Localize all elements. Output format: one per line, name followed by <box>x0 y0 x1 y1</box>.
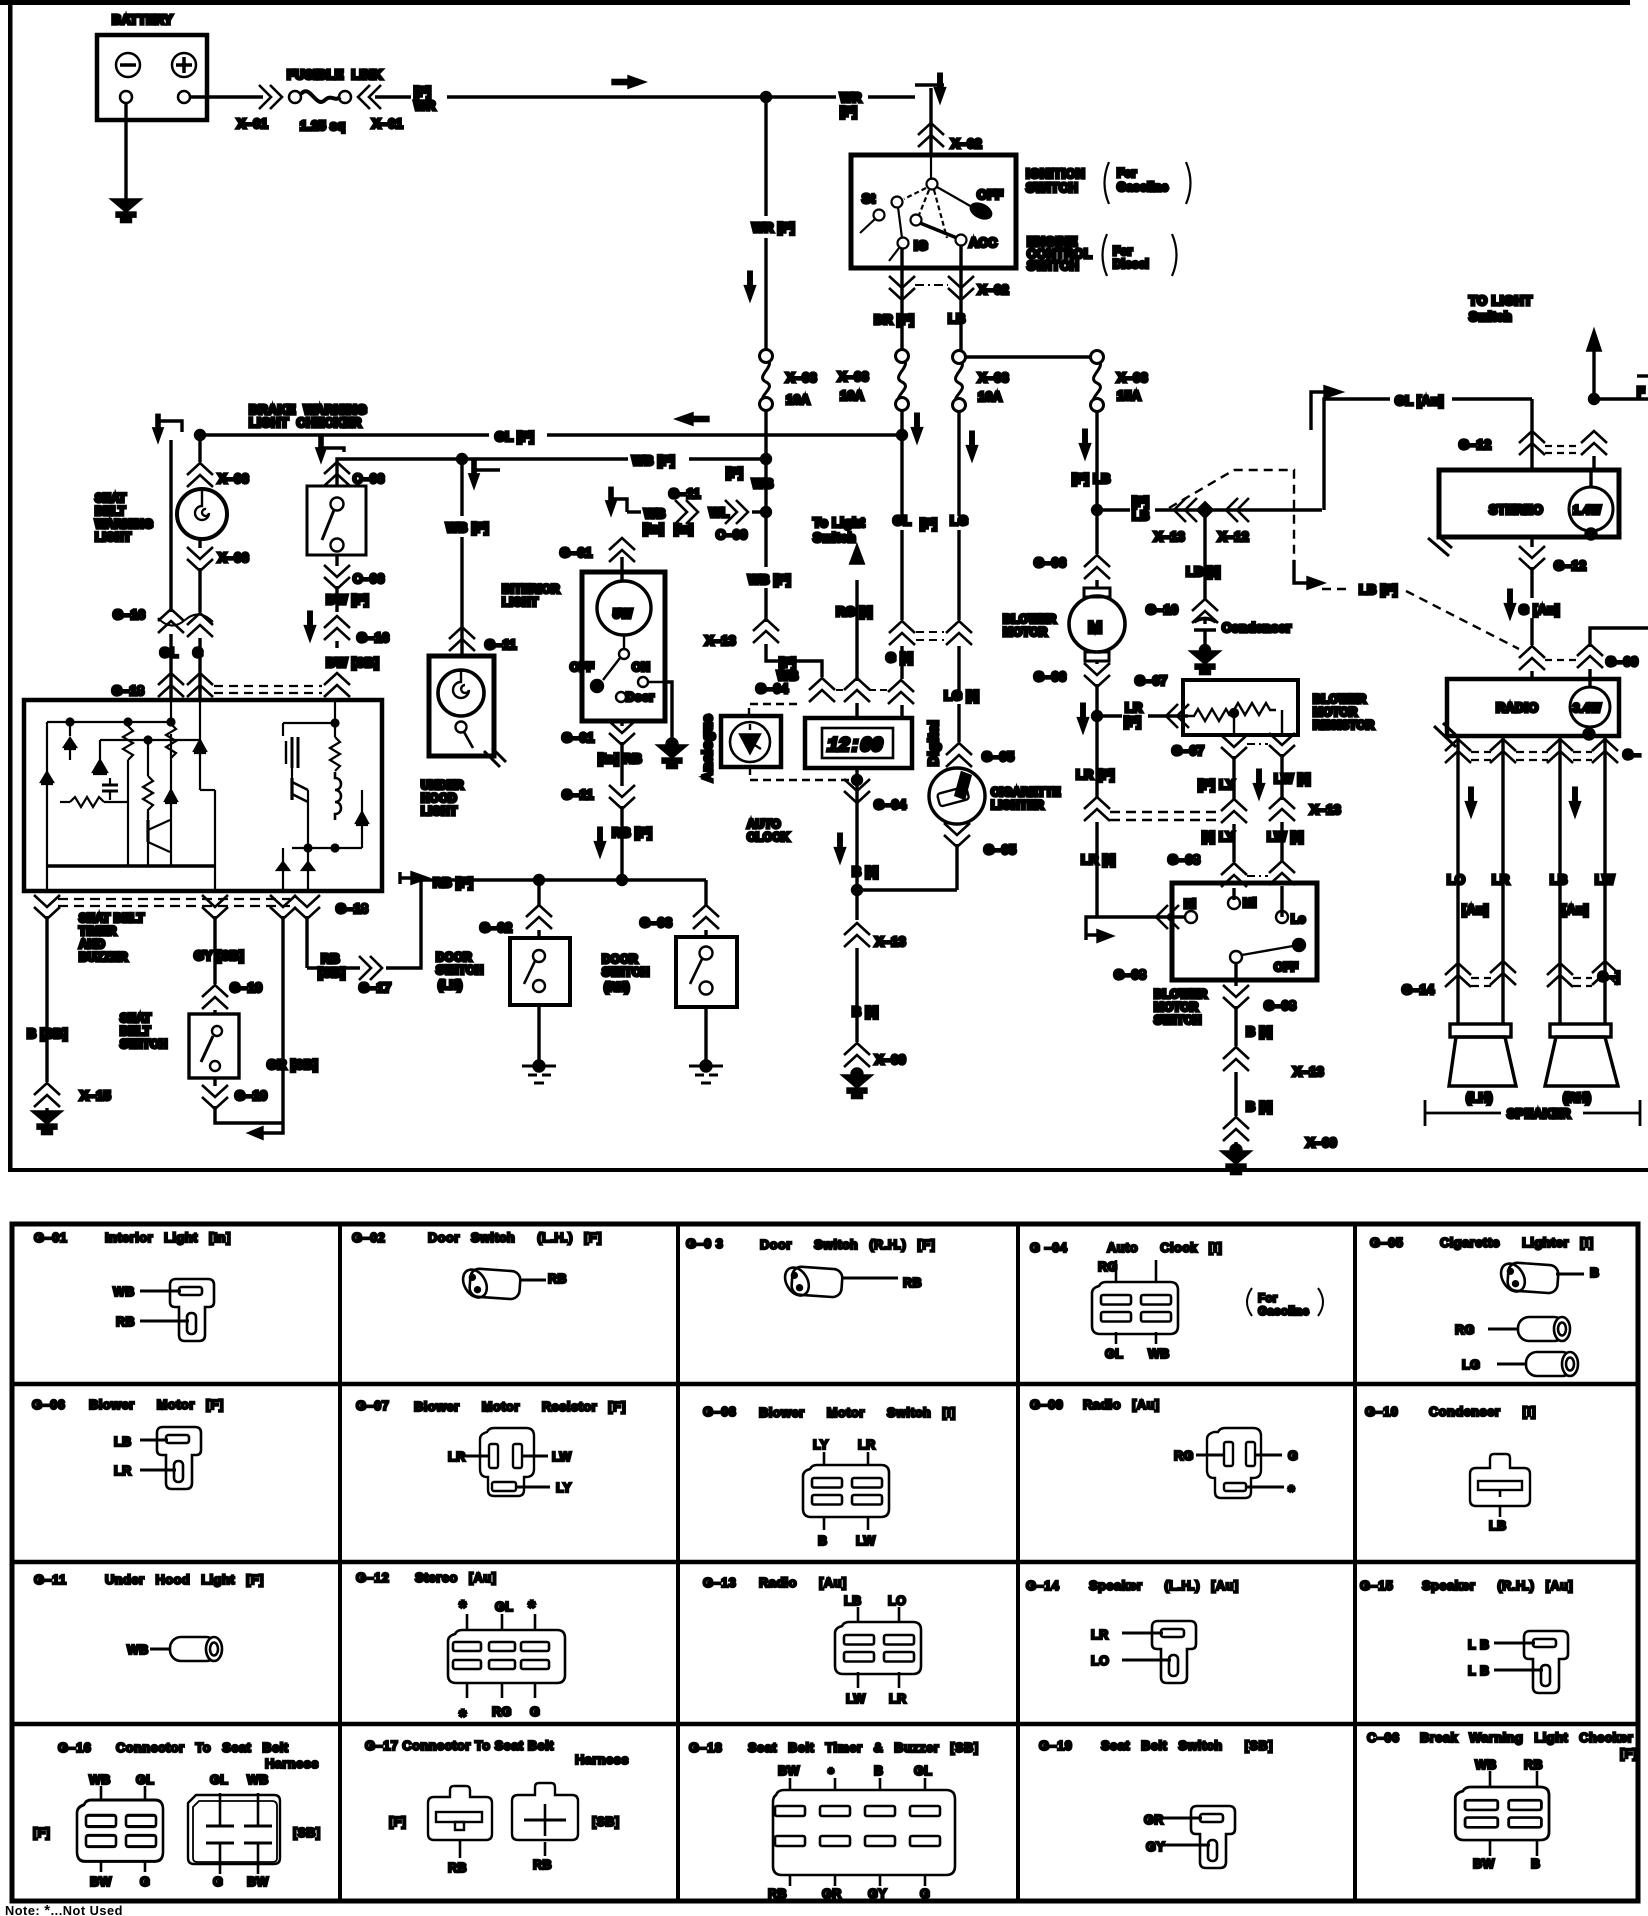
svg-text:LW: LW <box>846 1692 866 1706</box>
svg-text:G–06: G–06 <box>1034 670 1066 684</box>
connector X-13 <box>753 619 779 643</box>
svg-text:SWITCH: SWITCH <box>1027 259 1079 273</box>
svg-text:X–02: X–02 <box>951 137 982 151</box>
svg-text:BLOWER: BLOWER <box>1003 613 1057 626</box>
fusible link <box>237 68 403 133</box>
svg-text:LG: LG <box>1462 1358 1480 1372</box>
svg-text:[In] RB: [In] RB <box>598 752 642 766</box>
svg-text:B: B <box>874 1764 884 1778</box>
wire WR [F] main feed <box>375 95 411 98</box>
svg-text:G–09: G–09 <box>1030 1397 1063 1412</box>
lamp 1.4W <box>1569 487 1613 531</box>
svg-text:Speaker (R.H.) [Au]: Speaker (R.H.) [Au] <box>1422 1578 1573 1593</box>
svg-text:X–13: X–13 <box>705 634 736 648</box>
svg-text:G–18: G–18 <box>689 1740 722 1755</box>
svg-text:GL: GL <box>210 1773 228 1787</box>
svg-text:RB: RB <box>768 1887 787 1901</box>
connector X-13 <box>1174 498 1197 522</box>
svg-text:12:00: 12:00 <box>827 735 883 758</box>
battery negative wire <box>124 103 127 200</box>
svg-text:G–07: G–07 <box>1135 674 1167 688</box>
svg-text:CIGARETTE: CIGARETTE <box>991 786 1061 799</box>
wire B [I] from clock <box>855 703 858 718</box>
connector X-06 top <box>187 463 213 487</box>
svg-text:G–18: G–18 <box>336 902 368 916</box>
wire WB [F] down to under hood light <box>460 459 463 516</box>
svg-text:LR: LR <box>448 1450 466 1464</box>
svg-text:G–13: G–13 <box>703 1575 736 1590</box>
svg-text:Diesel: Diesel <box>1113 258 1149 271</box>
svg-text:G: G <box>1288 1449 1298 1463</box>
exit arrow left <box>262 1123 283 1133</box>
svg-text:LR: LR <box>1091 1628 1109 1642</box>
corner continuation WB underhood <box>474 468 500 471</box>
svg-text:WR [F]: WR [F] <box>752 221 795 235</box>
arrow right on WR wire <box>613 77 643 87</box>
svg-text:G–19: G–19 <box>230 981 262 995</box>
svg-text:GL: GL <box>1105 1347 1123 1361</box>
svg-text:G–]: G–] <box>1598 970 1620 984</box>
svg-text:1.4W: 1.4W <box>1573 504 1601 517</box>
svg-text:BW: BW <box>1473 1857 1495 1871</box>
svg-text:Mi: Mi <box>1243 897 1256 910</box>
svg-text:IGNITION: IGNITION <box>1026 167 1085 181</box>
svg-text:LR: LR <box>1492 873 1510 887</box>
svg-text:BW [SB]: BW [SB] <box>326 656 379 670</box>
svg-text:WB [F]: WB [F] <box>632 454 675 468</box>
svg-text:*: * <box>459 1707 467 1728</box>
svg-text:LY: LY <box>813 1438 829 1452</box>
svg-text:G–09: G–09 <box>1606 655 1638 669</box>
svg-text:X–13: X–13 <box>1293 1065 1324 1079</box>
lamp 5W <box>597 581 651 635</box>
blower motor <box>1069 588 1125 661</box>
svg-text:GR: GR <box>1144 1813 1164 1827</box>
svg-text:G: G <box>920 1887 930 1901</box>
wire G-09 corner to edge <box>1590 628 1648 647</box>
svg-text:[I] LY: [I] LY <box>1202 830 1235 844</box>
svg-text:MOTOR: MOTOR <box>1154 1001 1199 1014</box>
svg-text:G–17: G–17 <box>359 981 391 995</box>
svg-text:TO LIGHT: TO LIGHT <box>1469 293 1532 308</box>
svg-text:[F] LY: [F] LY <box>1198 778 1235 792</box>
svg-text:G–12: G–12 <box>1459 438 1491 452</box>
svg-text:[SB]: [SB] <box>592 1815 619 1829</box>
wire RB [SB] <box>305 916 308 968</box>
arrow down right of fuse2 <box>913 414 922 441</box>
svg-text:*: * <box>459 1598 467 1619</box>
interior light box <box>582 572 665 721</box>
svg-text:*: * <box>1288 1482 1295 1501</box>
connector X-06 bottom <box>198 539 201 548</box>
connector X-09 <box>844 1043 870 1067</box>
svg-text:GL: GL <box>893 514 911 528</box>
svg-text:G–16: G–16 <box>357 631 389 645</box>
connector G-16 (BW) <box>324 616 350 640</box>
connector G-08 row <box>1221 863 1247 887</box>
svg-text:LB: LB <box>1550 873 1568 887</box>
svg-text:WR: WR <box>414 99 436 113</box>
brake warning light checker switch <box>307 435 366 555</box>
svg-text:Condenser [I]: Condenser [I] <box>1429 1404 1536 1419</box>
svg-text:G–04: G–04 <box>756 682 788 696</box>
svg-text:LG: LG <box>950 514 968 528</box>
connector C-06 top <box>324 462 350 486</box>
node WB junction (underhood branch) <box>458 455 467 464</box>
svg-text:[F]: [F] <box>389 1815 406 1829</box>
wire G [I] (clock feed) <box>900 409 903 516</box>
svg-text:Switch: Switch <box>1469 310 1512 324</box>
svg-text:SEAT BELT: SEAT BELT <box>79 912 144 925</box>
svg-text:WB: WB <box>247 1773 269 1787</box>
svg-text:LW [I]: LW [I] <box>1274 772 1311 786</box>
node WB/C-09 junction <box>762 508 771 517</box>
node WR junction <box>762 93 771 102</box>
connector G-05 top <box>946 743 972 767</box>
svg-text:LO: LO <box>1091 1654 1109 1668</box>
fuse X-03 10A (WR) <box>760 350 773 411</box>
svg-text:G–10: G–10 <box>1365 1404 1398 1419</box>
svg-text:AND: AND <box>79 938 105 951</box>
svg-text:B [I]: B [I] <box>1246 1100 1272 1114</box>
wire IG out of box <box>900 248 903 300</box>
svg-text:SWITCH: SWITCH <box>1154 1014 1202 1027</box>
wire GL into stereo <box>1530 399 1533 470</box>
svg-text:X–03: X–03 <box>1117 371 1148 385</box>
svg-text:RG: RG <box>1174 1449 1194 1463</box>
svg-text:LR: LR <box>889 1692 907 1706</box>
svg-text:X–03: X–03 <box>978 371 1009 385</box>
wire WB [F] from checker <box>337 459 628 486</box>
connector G-18 (BW) <box>324 673 350 697</box>
svg-text:Note: *...Not Used: Note: *...Not Used <box>5 1902 123 1916</box>
fuse X-03 10A (BR) <box>896 350 909 411</box>
svg-text:[F]: [F] <box>920 517 937 531</box>
wire WB down from junction <box>764 459 767 512</box>
svg-text:For: For <box>1117 167 1137 180</box>
wire LB [I] condenser <box>1203 510 1206 600</box>
svg-text:X–06: X–06 <box>218 472 249 486</box>
connector G-19 top <box>202 985 228 1009</box>
wire B [SB] <box>45 916 48 1082</box>
svg-text:RB: RB <box>548 1272 567 1286</box>
svg-text:X–02: X–02 <box>978 283 1009 297</box>
connector X-09 <box>1223 1117 1249 1141</box>
svg-text:10A: 10A <box>786 393 810 407</box>
svg-text:Lo: Lo <box>1291 913 1306 926</box>
svg-text:G–05: G–05 <box>1370 1235 1403 1250</box>
svg-text:For: For <box>1113 245 1133 258</box>
svg-text:Radio [Au]: Radio [Au] <box>759 1575 847 1590</box>
svg-text:BATTERY: BATTERY <box>112 13 173 27</box>
stereo case slashes <box>1428 538 1449 556</box>
svg-text:B [I]: B [I] <box>852 865 878 879</box>
svg-text:G–01: G–01 <box>562 731 594 745</box>
wire GY [SB] <box>213 916 216 984</box>
seat belt warning light <box>95 489 227 544</box>
lamp 3.4W <box>1570 687 1610 727</box>
svg-text:WB: WB <box>113 1285 135 1299</box>
connector X-12 <box>1226 498 1249 522</box>
battery <box>97 13 207 120</box>
wire to light switch arrow <box>1592 348 1595 399</box>
svg-text:G: G <box>140 1875 150 1889</box>
svg-text:G–0 3: G–0 3 <box>686 1236 723 1251</box>
connector G-18 bottom row <box>34 895 60 919</box>
svg-text:RB: RB <box>116 1315 135 1329</box>
svg-text:BELT: BELT <box>95 505 126 518</box>
svg-text:MOTOR: MOTOR <box>1003 626 1048 639</box>
svg-text:GL: GL <box>136 1773 154 1787</box>
svg-text:[F]: [F] <box>1620 1747 1637 1761</box>
svg-text:L B: L B <box>1468 1664 1490 1678</box>
timer box internals <box>41 700 368 891</box>
wire BW into box <box>335 555 338 566</box>
svg-text:G–11: G–11 <box>562 788 594 802</box>
battery ground <box>113 200 139 222</box>
svg-text:G–16: G–16 <box>113 608 145 622</box>
svg-text:GR [SB]: GR [SB] <box>267 1058 318 1072</box>
resistor elements <box>1188 703 1282 735</box>
SPEAKER bracket <box>1425 1100 1640 1126</box>
svg-text:LIGHT CHECKER: LIGHT CHECKER <box>249 416 362 430</box>
svg-text:(LH): (LH) <box>438 979 462 992</box>
arrow down WR wire <box>746 272 755 299</box>
ground LH door switch <box>534 1061 544 1071</box>
svg-text:Digital: Digital <box>925 720 941 766</box>
node X-12 junction <box>1198 503 1212 517</box>
svg-text:G–14: G–14 <box>1026 1578 1060 1593</box>
svg-text:Harness: Harness <box>575 1752 629 1767</box>
connector G-17 <box>359 956 382 980</box>
connector G-09 row <box>1519 646 1545 670</box>
svg-text:Door Switch (L.H.) [F]: Door Switch (L.H.) [F] <box>428 1230 602 1245</box>
svg-text:Connector To Seat Belt: Connector To Seat Belt <box>116 1740 289 1755</box>
connector X-13 row <box>1084 797 1110 821</box>
svg-text:G–07: G–07 <box>1172 744 1204 758</box>
svg-text:X–06: X–06 <box>218 551 249 565</box>
svg-text:X–03: X–03 <box>838 370 869 384</box>
svg-text:G–16: G–16 <box>58 1740 91 1755</box>
node light switch junction <box>1590 395 1599 404</box>
wire LR [F] to resistor <box>1097 714 1122 717</box>
svg-text:SPEAKER: SPEAKER <box>1507 1107 1571 1121</box>
svg-text:FUSIBLE LINK: FUSIBLE LINK <box>287 68 382 82</box>
wire into lamp <box>620 557 623 582</box>
connector X-13 <box>844 923 870 947</box>
svg-text:BRAKE WARNING: BRAKE WARNING <box>249 403 367 417</box>
svg-text:SWITCH: SWITCH <box>436 964 484 977</box>
svg-text:G–01: G–01 <box>34 1230 67 1245</box>
connector G-13 row <box>1445 739 1471 763</box>
connector X-13 <box>1223 1047 1249 1071</box>
svg-text:LR: LR <box>1125 701 1143 715</box>
wire fuse1 down to WB junction <box>764 411 767 459</box>
svg-text:X–09: X–09 <box>1306 1136 1337 1150</box>
svg-text:GL [F]: GL [F] <box>495 430 534 444</box>
svg-text:C–06: C–06 <box>353 572 385 586</box>
wire LB down to blower motor <box>1095 510 1098 554</box>
svg-text:WB: WB <box>777 669 799 683</box>
corner continuation GL <box>158 421 182 432</box>
svg-text:St: St <box>862 192 876 206</box>
wire LB [F] horizontal to X-12 <box>1097 508 1130 511</box>
svg-text:WB: WB <box>644 507 666 521</box>
svg-text:[F]: [F] <box>726 466 743 480</box>
svg-text:LR [I]: LR [I] <box>1081 853 1116 867</box>
radio case slashes <box>1434 726 1456 747</box>
ground condenser <box>1201 646 1210 655</box>
svg-text:10A: 10A <box>840 389 864 403</box>
svg-text:G: G <box>193 646 203 660</box>
svg-text:RB: RB <box>1524 1758 1543 1772</box>
svg-text:G–01: G–01 <box>560 546 592 560</box>
frame left border <box>8 0 13 1172</box>
svg-text:Hi: Hi <box>1184 898 1196 911</box>
fuse X-03 10A (LB) <box>953 351 966 412</box>
seat belt timer and buzzer box <box>24 700 382 891</box>
svg-text:C–06: C–06 <box>1367 1730 1400 1745</box>
svg-text:[In]: [In] <box>643 522 664 536</box>
svg-text:RB: RB <box>321 952 340 966</box>
wire GL [F] horizontal <box>200 433 489 436</box>
svg-text:SEAT: SEAT <box>120 1012 151 1025</box>
svg-text:LB: LB <box>1489 1519 1507 1533</box>
svg-text:RG [I]: RG [I] <box>836 605 873 619</box>
svg-text:GY [SB]: GY [SB] <box>194 949 244 963</box>
wire BR down to fuse <box>900 300 903 350</box>
svg-text:WB [F]: WB [F] <box>446 521 489 535</box>
svg-text:SWITCH: SWITCH <box>120 1038 168 1051</box>
svg-text:Switch: Switch <box>813 531 856 545</box>
dashed LB [F] to stereo <box>1169 470 1294 560</box>
svg-text:Door: Door <box>626 691 654 704</box>
connector G-14 row <box>1445 963 1471 987</box>
svg-text:LIGHT: LIGHT <box>421 805 457 818</box>
svg-text:WR: WR <box>840 91 862 105</box>
wire Hi lead <box>1086 917 1185 940</box>
svg-text:B: B <box>1590 1266 1600 1280</box>
wire WR [F] down from junction <box>764 97 767 216</box>
svg-text:[F]: [F] <box>1132 495 1149 509</box>
svg-text:B: B <box>1531 1857 1541 1871</box>
node GL-fuse junction <box>898 431 907 440</box>
connector G-06 bottom <box>1095 661 1098 664</box>
svg-text:LB [F]: LB [F] <box>1359 583 1398 597</box>
svg-text:[SB]: [SB] <box>293 1826 320 1840</box>
stereo box <box>1439 470 1619 537</box>
wire GL [Au] up corner <box>1324 399 1390 510</box>
svg-text:BUZZER: BUZZER <box>79 951 128 964</box>
svg-text:G–11: G–11 <box>485 638 517 652</box>
wire RG [I] to light switch <box>855 580 858 681</box>
wire LB from 15A fuse <box>1095 410 1098 510</box>
svg-text:1.25 sq: 1.25 sq <box>300 119 346 133</box>
svg-text:WB: WB <box>1148 1347 1170 1361</box>
connector G-19 bottom <box>213 1078 216 1086</box>
wire RB below interior light <box>620 721 623 726</box>
svg-text:MOTOR: MOTOR <box>1313 706 1358 719</box>
svg-text:G–08: G–08 <box>703 1404 736 1419</box>
svg-text:Condenser: Condenser <box>1222 621 1291 635</box>
svg-text:WB: WB <box>1475 1758 1497 1772</box>
svg-text:WB: WB <box>127 1643 149 1657</box>
svg-text:3.4W: 3.4W <box>1573 702 1601 715</box>
cigarette lighter <box>929 768 985 824</box>
svg-text:(RH): (RH) <box>604 981 630 994</box>
svg-text:Analogue: Analogue <box>699 714 715 782</box>
svg-text:OFF: OFF <box>977 188 1003 202</box>
wire GR [SB] <box>281 916 284 1123</box>
dashed analogue connections <box>749 704 799 716</box>
fuse X-03 15A <box>1091 351 1104 412</box>
svg-text:SWITCH: SWITCH <box>602 966 650 979</box>
svg-text:SEAT: SEAT <box>95 492 126 505</box>
svg-text:G–08: G–08 <box>1114 968 1146 982</box>
svg-text:Break Warning Light Checker: Break Warning Light Checker <box>1420 1730 1633 1745</box>
svg-text:OFF: OFF <box>570 661 594 674</box>
svg-text:[F]: [F] <box>414 85 431 99</box>
svg-text:WARNING: WARNING <box>95 518 153 531</box>
connector G-06 top <box>1084 555 1110 579</box>
svg-text:SWITCH: SWITCH <box>1026 181 1078 195</box>
arrow left on GL wire <box>678 414 708 424</box>
svg-text:G–06: G–06 <box>1034 556 1066 570</box>
connector C-06 bottom <box>324 565 350 589</box>
svg-text:LB: LB <box>1132 509 1150 523</box>
svg-text:G–12: G–12 <box>1554 559 1586 573</box>
svg-text:RESISTOR: RESISTOR <box>1313 719 1375 732</box>
wire battery plus to fusible link <box>190 95 263 98</box>
svg-text:Auto Clock [I]: Auto Clock [I] <box>1107 1240 1222 1255</box>
svg-text:*: * <box>528 1598 536 1619</box>
svg-text:GL [Au]: GL [Au] <box>1395 394 1444 408</box>
svg-text:LG [I]: LG [I] <box>944 689 979 703</box>
svg-text:(RH): (RH) <box>1563 1091 1591 1105</box>
blower motor resistor box <box>1183 680 1298 735</box>
svg-text:G–: G– <box>1623 748 1641 762</box>
svg-text:X–03: X–03 <box>786 371 817 385</box>
arrows on speaker wires <box>1467 788 1476 815</box>
svg-text:B: B <box>818 1534 828 1548</box>
svg-text:BLOWER: BLOWER <box>1313 693 1367 706</box>
svg-text:5W: 5W <box>613 607 633 621</box>
wire GL vertical left <box>169 440 172 612</box>
svg-text:INTERIOR: INTERIOR <box>502 583 560 596</box>
svg-text:G–08: G–08 <box>1264 999 1296 1013</box>
svg-text:G–03: G–03 <box>640 916 672 930</box>
door switch RH <box>704 880 707 906</box>
svg-text:Speaker (L.H.) [Au]: Speaker (L.H.) [Au] <box>1089 1578 1239 1593</box>
svg-text:HOOD: HOOD <box>421 792 457 805</box>
svg-text:X–09: X–09 <box>875 1053 906 1067</box>
svg-text:G–02: G–02 <box>480 921 512 935</box>
svg-text:LB: LB <box>844 1594 862 1608</box>
svg-text:RADIO: RADIO <box>1496 701 1539 715</box>
svg-text:L B: L B <box>1468 1638 1490 1652</box>
svg-text:[Au]: [Au] <box>1562 903 1589 917</box>
svg-text:15A: 15A <box>1117 389 1141 403</box>
connector G-11 <box>449 627 475 651</box>
node GL junction left <box>196 431 205 440</box>
svg-text:For: For <box>1258 1292 1278 1305</box>
ground RH door switch <box>701 1061 711 1071</box>
svg-text:Interior Light [In]: Interior Light [In] <box>105 1230 231 1245</box>
svg-text:(LH): (LH) <box>1466 1091 1493 1105</box>
wire WB [In] to C-09 <box>627 510 641 513</box>
svg-text:GL: GL <box>914 1764 932 1778</box>
wire ACC out of box <box>959 246 962 300</box>
